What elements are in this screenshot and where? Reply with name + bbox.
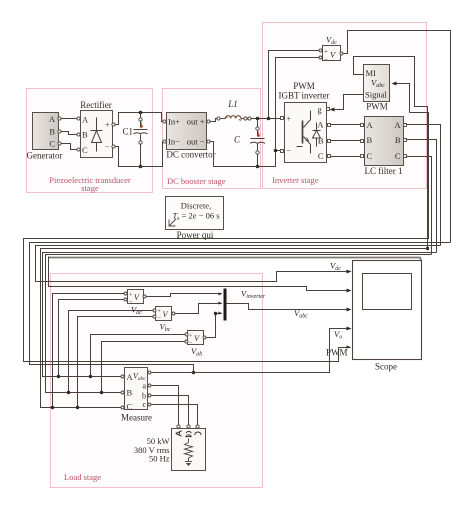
measure port A bbox=[121, 375, 124, 378]
riser phase C to Vbc minus bbox=[78, 317, 155, 408]
arrow into scope Vabc input bbox=[347, 308, 352, 312]
svg-text:−: − bbox=[324, 55, 328, 63]
node riser A1 bbox=[57, 375, 60, 378]
IGBT inverter port plus bbox=[281, 117, 284, 120]
wire inverter A to LC filter A bbox=[331, 124, 363, 126]
node riser B2 bbox=[100, 391, 103, 394]
rectifier output port minus bbox=[112, 145, 115, 148]
gray hook at scope corner bbox=[420, 258, 422, 261]
measure block bbox=[121, 368, 152, 423]
inductor L1 right port bbox=[244, 117, 247, 120]
voltmeter Vab port plus bbox=[185, 333, 188, 336]
load port B bbox=[187, 425, 190, 428]
LC filter output port A bbox=[404, 124, 407, 127]
wire Vdc plus tap to voltmeter bbox=[269, 51, 321, 119]
stage box: Load stage bbox=[51, 274, 263, 488]
voltmeter Vdc bbox=[323, 35, 341, 64]
mux bar bbox=[224, 289, 227, 321]
node C1 top bbox=[139, 111, 143, 115]
svg-text:Ts = 2e − 06 s: Ts = 2e − 06 s bbox=[172, 211, 219, 223]
bundle wire B4 loop phase A to measure bbox=[43, 253, 437, 377]
wire DC bus top to inverter plus bbox=[252, 118, 283, 120]
wire out+ to inductor bbox=[210, 119, 218, 122]
svg-text:b: b bbox=[142, 392, 146, 401]
IGBT inverter port g bbox=[327, 108, 330, 111]
svg-text:Discrete,: Discrete, bbox=[181, 201, 211, 211]
rectifier input port C bbox=[77, 148, 80, 151]
arrow into scope PWM input bbox=[347, 346, 352, 349]
svg-text:50 Hz: 50 Hz bbox=[149, 454, 170, 464]
red charge arrow on C1 bbox=[141, 123, 144, 129]
mux arrow 2 bbox=[219, 302, 223, 305]
svg-text:Scope: Scope bbox=[375, 362, 397, 372]
svg-text:In−: In− bbox=[168, 137, 180, 147]
wire L1 to DC bus top bbox=[247, 118, 249, 120]
wire Vac output to mux bbox=[207, 314, 216, 338]
load port C bbox=[196, 425, 199, 428]
node C1 bottom bbox=[139, 165, 143, 169]
svg-text:Inverter stage: Inverter stage bbox=[272, 175, 319, 185]
wire Vabc feedback lower route bbox=[410, 113, 429, 239]
svg-text:PWM: PWM bbox=[366, 102, 388, 112]
arrow into scope Vinverter input bbox=[347, 289, 352, 293]
voltmeter Vac bbox=[128, 290, 144, 317]
svg-text:C: C bbox=[127, 402, 133, 412]
wire generator C to rectifier C bbox=[61, 144, 77, 150]
svg-text:+: + bbox=[189, 333, 193, 340]
riser phase A to Vac minus bbox=[59, 300, 126, 377]
wire Vbc output to mux bbox=[175, 304, 220, 314]
riser phase B to Vab minus bbox=[102, 342, 186, 393]
svg-text:DC booster stage: DC booster stage bbox=[167, 176, 226, 186]
arrow into PWM Vabc bbox=[392, 82, 397, 86]
svg-text:Generator: Generator bbox=[27, 151, 63, 161]
wire Vdc measurement to right rail bbox=[344, 31, 451, 243]
wire PWM Signal to inverter gate bbox=[332, 95, 364, 110]
svg-text:+: + bbox=[105, 121, 110, 130]
LC filter 1 block bbox=[365, 117, 404, 177]
IGBT inverter port A bbox=[328, 124, 331, 127]
IGBT inverter block U2 bbox=[285, 103, 327, 163]
generator G1 bbox=[27, 113, 63, 161]
load port A bbox=[177, 425, 180, 428]
svg-text:+: + bbox=[324, 47, 328, 55]
rectifier output port plus bbox=[112, 123, 115, 126]
rectifier input port B bbox=[77, 133, 80, 136]
svg-text:stage: stage bbox=[81, 183, 99, 193]
svg-text:out −: out − bbox=[187, 137, 205, 147]
wire Vab output to mux bbox=[147, 294, 220, 297]
node riser B1 bbox=[67, 391, 70, 394]
svg-text:C1: C1 bbox=[122, 127, 133, 137]
wire LC filter B output down right side bbox=[407, 140, 437, 253]
riser phase A to Vab plus bbox=[91, 335, 186, 377]
svg-text:g: g bbox=[318, 106, 322, 115]
voltmeter Vdc output port bbox=[340, 52, 343, 55]
voltmeter Vdc port plus bbox=[319, 49, 322, 52]
wire Vinverter to scope bbox=[49, 257, 349, 291]
svg-text:Rectifier: Rectifier bbox=[80, 100, 111, 110]
svg-text:A: A bbox=[317, 120, 324, 130]
mux arrow 1 bbox=[219, 293, 223, 296]
wire out- to DC bus bottom bbox=[210, 142, 258, 167]
DC convertor port In- bbox=[163, 140, 166, 143]
svg-text:A: A bbox=[367, 120, 374, 130]
inductor L1 left port bbox=[217, 117, 220, 120]
rectifier internal diode symbol bbox=[91, 118, 103, 152]
svg-text:B: B bbox=[49, 127, 55, 137]
powergui block Discrete bbox=[166, 197, 224, 241]
bundle wire B7 gray Vinverter bbox=[49, 257, 421, 259]
generator port B bbox=[58, 130, 61, 133]
rectifier U1 bbox=[80, 100, 112, 158]
svg-text:+: + bbox=[129, 291, 133, 298]
wire inverter B to LC filter B bbox=[331, 140, 363, 142]
mux arrow 3 bbox=[219, 312, 223, 315]
svg-text:L1: L1 bbox=[227, 99, 238, 109]
wire measure c to load bbox=[152, 405, 198, 425]
svg-text:C: C bbox=[318, 151, 324, 161]
measure port B bbox=[121, 391, 124, 394]
svg-text:B: B bbox=[82, 130, 88, 140]
wire MI input route bbox=[354, 57, 428, 249]
measure port Vabc out bbox=[148, 371, 151, 374]
svg-text:C: C bbox=[82, 145, 88, 155]
svg-text:−: − bbox=[287, 147, 292, 156]
voltmeter Vab bbox=[188, 331, 204, 358]
arrow into scope Vdc input bbox=[347, 270, 352, 274]
DC convertor port In+ bbox=[163, 120, 166, 123]
svg-text:C: C bbox=[49, 139, 55, 149]
wire generator B to rectifier B bbox=[61, 132, 77, 135]
svg-text:C: C bbox=[395, 151, 401, 161]
DC convertor port out- bbox=[207, 140, 210, 143]
wire DC bus bottom to inverter minus bbox=[258, 151, 283, 167]
svg-text:+: + bbox=[287, 115, 292, 124]
wire Vdc minus tap to voltmeter bbox=[276, 58, 321, 151]
node Vabc tap bbox=[192, 371, 196, 375]
stage box: DC booster stage bbox=[163, 89, 261, 189]
voltmeter Vbc port plus bbox=[153, 309, 156, 312]
voltmeter Vac output bbox=[143, 295, 146, 298]
generator port A bbox=[58, 117, 61, 120]
IGBT inverter port B bbox=[328, 140, 331, 143]
voltmeter Vac port plus bbox=[124, 292, 127, 295]
voltmeter Vbc port minus bbox=[153, 315, 156, 318]
svg-text:IGBT inverter: IGBT inverter bbox=[278, 91, 329, 101]
wire Vab riser into mux bbox=[216, 313, 220, 315]
LC filter output port B bbox=[404, 139, 407, 142]
scope block bbox=[353, 261, 422, 372]
wire Vo from tap to scope bbox=[194, 329, 349, 373]
svg-text:C: C bbox=[234, 135, 241, 145]
voltmeter Vac port minus bbox=[124, 298, 127, 301]
voltmeter Vbc output bbox=[172, 312, 175, 315]
node riser C1 bbox=[51, 406, 54, 409]
measure port b out bbox=[148, 394, 151, 397]
measure port C bbox=[121, 406, 124, 409]
label PWM IGBT inverter bbox=[278, 81, 329, 101]
arrow into gate g bbox=[330, 108, 335, 112]
rectifier input port A bbox=[77, 117, 80, 120]
riser phase B to Vbc plus bbox=[69, 311, 155, 393]
svg-text:B: B bbox=[318, 136, 324, 146]
wire inverter C to LC filter C bbox=[331, 156, 363, 158]
svg-text:C: C bbox=[367, 151, 373, 161]
DC convertor port out+ bbox=[207, 120, 210, 123]
wire LC filter A output down right side bbox=[407, 125, 441, 246]
svg-text:LC filter 1: LC filter 1 bbox=[365, 166, 403, 176]
voltmeter Vab output bbox=[203, 336, 206, 339]
capacitor C bbox=[234, 119, 265, 167]
svg-text:c: c bbox=[142, 400, 146, 409]
wire mux output to scope Vabc bbox=[227, 304, 349, 310]
measure port c out bbox=[148, 403, 151, 406]
stage box: Inverter stage bbox=[263, 23, 427, 189]
PWM generator block bbox=[364, 65, 390, 112]
svg-text:Signal: Signal bbox=[365, 90, 387, 100]
bundle wire B6 loop phase C to measure bbox=[41, 249, 428, 408]
IGBT icon inside inverter bbox=[297, 111, 321, 154]
svg-text:PWM: PWM bbox=[293, 81, 315, 91]
svg-text:A: A bbox=[394, 120, 401, 130]
three-phase load block bbox=[134, 429, 206, 471]
node riser C2 bbox=[76, 406, 79, 409]
svg-text:−: − bbox=[105, 143, 110, 152]
load internal resistor bbox=[185, 439, 193, 462]
node capacitor C top bbox=[256, 117, 260, 121]
red charge arrow on C bbox=[258, 132, 261, 138]
svg-text:out +: out + bbox=[187, 117, 205, 127]
voltmeter Vdc port minus bbox=[319, 56, 322, 59]
LC filter input port C bbox=[361, 155, 364, 158]
LC filter input port B bbox=[361, 140, 364, 143]
svg-text:B: B bbox=[127, 387, 133, 397]
measure port a out bbox=[148, 384, 151, 387]
load internal ground bbox=[185, 462, 192, 467]
bundle wire B1 MI loop to scope PWM input bbox=[24, 239, 428, 362]
bundle wire B5 loop phase B to measure bbox=[46, 255, 432, 393]
svg-text:Measure: Measure bbox=[121, 413, 152, 423]
svg-text:a: a bbox=[142, 381, 146, 390]
wire rectifier plus to C1 top node bbox=[116, 113, 155, 125]
generator port C bbox=[58, 142, 61, 145]
wire measure b to load bbox=[152, 396, 189, 425]
wire C1 bottom into DC convertor In- bbox=[141, 142, 164, 167]
svg-text:A: A bbox=[49, 114, 56, 124]
svg-text:B: B bbox=[395, 135, 401, 145]
svg-text:B: B bbox=[367, 135, 373, 145]
svg-text:MI: MI bbox=[366, 68, 377, 78]
node Vdc plus tap bbox=[267, 117, 271, 121]
node riser A2 bbox=[89, 375, 92, 378]
riser phase C to Vac plus bbox=[53, 294, 126, 408]
LC filter input port A bbox=[361, 124, 364, 127]
wire measure a to load bbox=[152, 386, 179, 425]
svg-text:A: A bbox=[82, 115, 89, 125]
svg-text:In+: In+ bbox=[168, 117, 180, 127]
wire rectifier minus to C1 bottom node bbox=[116, 147, 141, 167]
IGBT inverter port minus bbox=[281, 150, 284, 153]
wire C1 top into DC convertor In+ bbox=[155, 113, 164, 122]
IGBT inverter port C bbox=[328, 155, 331, 158]
arrow into scope Vo input bbox=[347, 327, 352, 331]
wire measure Vabc output to tap node bbox=[152, 372, 194, 374]
voltmeter Vab port minus bbox=[185, 340, 188, 343]
svg-text:+: + bbox=[157, 308, 161, 315]
svg-text:DC convertor: DC convertor bbox=[166, 150, 215, 160]
wire Vabc feedback into PWM bbox=[394, 84, 410, 113]
wire LC filter C output down right side bbox=[407, 157, 432, 255]
node Vdc minus tap bbox=[274, 149, 278, 153]
capacitor C1 bbox=[122, 113, 147, 167]
node capacitor C bottom bbox=[256, 165, 260, 169]
wire generator A to rectifier A bbox=[61, 118, 77, 120]
bundle wire B2 rail loop to Vabc tap bbox=[30, 243, 451, 373]
bundle wire B3 loop to scope Vdc input bbox=[36, 246, 441, 282]
DC convertor block bbox=[166, 113, 215, 160]
svg-text:Load stage: Load stage bbox=[64, 472, 101, 482]
voltmeter Vbc bbox=[156, 307, 172, 334]
LC filter output port C bbox=[404, 155, 407, 158]
node branch B6 bbox=[426, 247, 429, 250]
bus entry port bbox=[248, 117, 251, 120]
node mux input3 bbox=[214, 312, 217, 315]
inductor L1 bbox=[221, 99, 244, 120]
stage box: Piezoelectric transducer stage bbox=[27, 89, 153, 194]
